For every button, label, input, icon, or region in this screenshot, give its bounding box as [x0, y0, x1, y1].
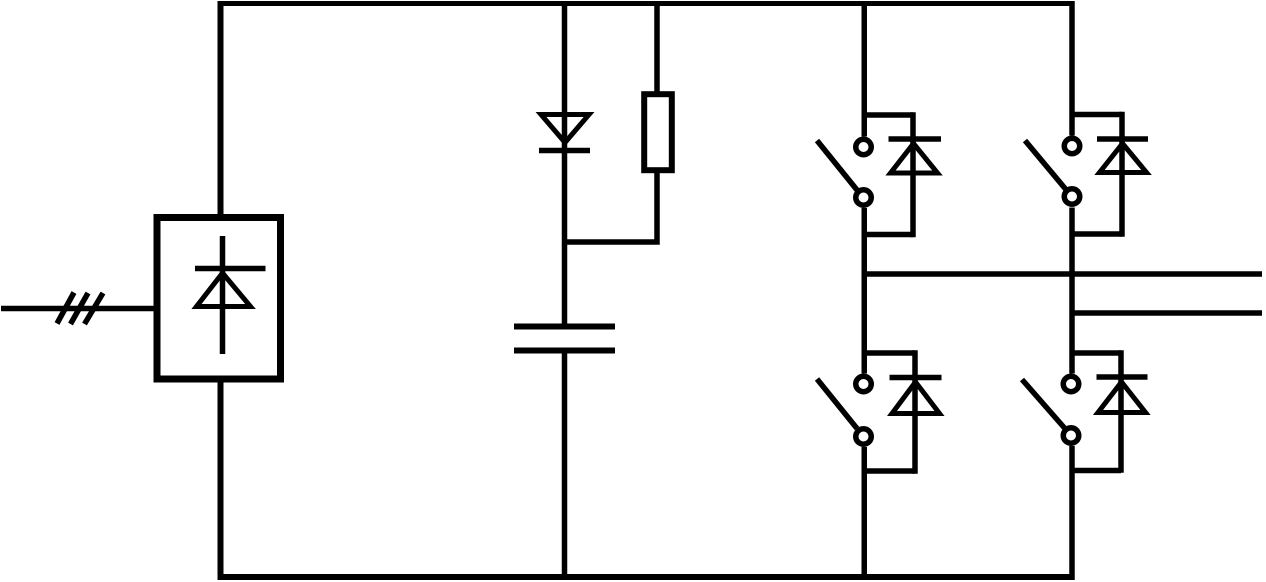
- switch S1 bottom branch wire: [864, 232, 913, 238]
- leg 2 wire from top rail to switch S2: [1069, 1, 1075, 136]
- wire rectifier bottom to bottom rail: [218, 379, 224, 580]
- switch S4 diode branch wire: [1118, 350, 1124, 473]
- switch S2 diode branch wire: [1119, 112, 1125, 237]
- switch S3 top branch wire: [864, 350, 915, 356]
- switch S4 top branch wire: [1072, 350, 1121, 356]
- switch S4 top contact circle: [1063, 376, 1079, 392]
- 3-phase input line: [1, 306, 156, 312]
- brake diode D anode bar: [539, 148, 590, 154]
- rectifier box: [157, 218, 281, 380]
- switch S1 top contact circle: [856, 139, 872, 155]
- brake diode D triangle (pointing down): [541, 115, 589, 143]
- leg 2 wire between S2 and S4 through output node: [1069, 208, 1075, 374]
- switch S2 bottom branch wire: [1072, 231, 1122, 237]
- top DC rail: [218, 1, 1075, 6]
- switch S4 lever: [1022, 380, 1065, 429]
- switch S1 lever: [817, 141, 857, 191]
- chopper wire top rail to capacitor top plate: [562, 1, 568, 327]
- switch S3 top contact circle: [856, 376, 872, 392]
- switch S3 bottom branch wire: [864, 468, 915, 474]
- switch S3 bottom contact circle: [856, 429, 872, 445]
- switch S3 antiparallel diode triangle: [892, 382, 940, 414]
- switch S1 antiparallel diode triangle: [891, 144, 938, 174]
- switch S4 antiparallel diode triangle: [1098, 382, 1146, 413]
- capacitor C bottom plate: [514, 348, 615, 354]
- 3-phase slash 1: [57, 293, 74, 324]
- switch S3 antiparallel diode cathode bar: [890, 375, 942, 381]
- rectifier diode vertical lead: [220, 236, 226, 354]
- brake resistor R bottom wire and jog to chopper node: [562, 173, 657, 242]
- leg 1 wire from S3 to bottom rail: [862, 447, 868, 580]
- brake resistor R body: [644, 94, 672, 170]
- switch S1 top branch wire: [864, 112, 913, 118]
- wire rectifier top to top rail: [218, 1, 224, 217]
- switch S3 diode branch wire: [912, 350, 918, 474]
- rectifier diode triangle: [197, 273, 251, 307]
- output line B from leg 2 node: [1070, 310, 1263, 316]
- switch S3 lever: [817, 379, 857, 429]
- output line A from leg 1 node: [862, 271, 1262, 277]
- capacitor C top plate: [514, 324, 615, 330]
- switch S2 top contact circle: [1064, 138, 1080, 154]
- switch S4 bottom contact circle: [1063, 428, 1079, 444]
- leg 1 wire between S1 and S3 through output node: [862, 208, 868, 374]
- leg 2 wire from S4 to bottom rail: [1069, 446, 1075, 580]
- switch S1 diode branch wire: [910, 112, 916, 237]
- 3-phase slash 2: [71, 293, 89, 324]
- switch S1 bottom contact circle: [856, 190, 872, 206]
- leg 1 wire from top rail to switch S1: [862, 1, 868, 137]
- 3-phase slash 3: [85, 293, 104, 324]
- rectifier diode cathode bar: [195, 266, 266, 272]
- switch S4 bottom branch wire: [1072, 468, 1121, 474]
- switch S2 antiparallel diode cathode bar: [1097, 136, 1148, 142]
- switch S1 antiparallel diode cathode bar: [889, 136, 942, 142]
- switch S2 top branch wire: [1072, 112, 1122, 118]
- switch S2 lever: [1025, 141, 1066, 190]
- chopper wire capacitor bottom plate to bottom rail: [562, 351, 568, 581]
- switch S4 antiparallel diode cathode bar: [1097, 374, 1148, 380]
- bottom DC rail: [218, 574, 1075, 580]
- switch S2 antiparallel diode triangle: [1100, 144, 1147, 173]
- brake resistor R top wire: [654, 1, 660, 94]
- switch S2 bottom contact circle: [1064, 189, 1080, 205]
